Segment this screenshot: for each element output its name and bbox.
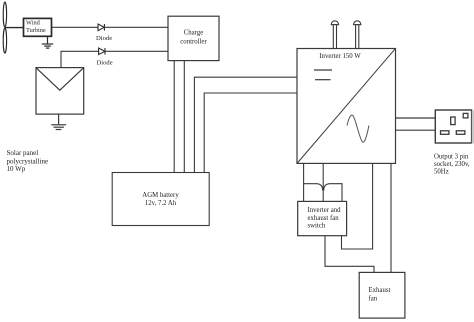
wire wind turbine to diode D1 <box>52 26 98 28</box>
inverter DC symbol <box>314 70 332 80</box>
ground (wind turbine) <box>42 36 53 48</box>
inverter U2 <box>297 49 396 164</box>
svg-text:exhaust fan: exhaust fan <box>308 215 340 222</box>
svg-text:fan: fan <box>369 296 378 303</box>
wire inverter to socket (live) <box>396 117 436 119</box>
switch button left <box>304 184 323 191</box>
svg-text:AGM battery: AGM battery <box>142 192 179 199</box>
svg-text:Charge: Charge <box>184 30 204 37</box>
switch box S1 <box>298 201 347 235</box>
wire inverter to exhaust fan <box>390 163 392 272</box>
svg-text:Exhaust: Exhaust <box>369 287 391 294</box>
svg-text:Diode: Diode <box>97 59 113 66</box>
svg-text:Inverter and: Inverter and <box>308 207 342 214</box>
wind turbine blades <box>3 2 6 53</box>
svg-text:Inverter 150 W: Inverter 150 W <box>319 53 361 60</box>
wire switch to exhaust fan <box>325 236 374 273</box>
ground (solar panel) <box>51 114 66 129</box>
svg-text:socket, 230v,: socket, 230v, <box>434 161 470 168</box>
wire solar panel to diode D2 <box>61 51 99 67</box>
svg-text:controller: controller <box>180 39 207 46</box>
diode D2 label <box>97 59 113 66</box>
svg-text:10 Wp: 10 Wp <box>7 165 26 173</box>
charge controller U1 <box>168 16 219 60</box>
diode D1 <box>98 24 104 31</box>
wire diode D2 to charge controller <box>105 50 168 52</box>
svg-text:50Hz: 50Hz <box>434 169 449 176</box>
svg-text:Diode: Diode <box>96 35 112 42</box>
output socket <box>435 110 471 143</box>
inverter diagonal <box>297 49 395 163</box>
battery B1 <box>112 173 209 226</box>
wire battery to inverter 2 <box>204 93 297 173</box>
wire inverter to socket (neutral) <box>396 129 436 131</box>
diode D2 <box>99 48 105 55</box>
wire inverter down-left-up to switch <box>342 163 373 249</box>
svg-text:Solar panel: Solar panel <box>7 149 39 157</box>
switch button right <box>324 184 342 202</box>
svg-text:Turbine: Turbine <box>26 27 46 34</box>
wire battery to inverter 1 <box>194 77 297 172</box>
inverter AC sine symbol <box>347 115 369 142</box>
wind turbine shaft wire <box>5 27 24 29</box>
socket shadow <box>472 111 474 144</box>
svg-text:Output 3 pin: Output 3 pin <box>434 154 469 161</box>
solar panel PV1 <box>36 68 84 115</box>
output socket label <box>434 154 470 176</box>
wire inverter to switch left <box>303 163 305 201</box>
wire inverter to switch middle <box>322 163 324 201</box>
antenna 2 <box>353 21 360 49</box>
wire controller to battery 2 <box>183 61 185 173</box>
exhaust fan M1 <box>359 272 405 318</box>
wind turbine box <box>24 18 52 36</box>
svg-text:Wind: Wind <box>26 20 41 27</box>
solar panel label <box>7 149 49 173</box>
wire diode D1 to charge controller <box>104 26 168 28</box>
wire controller to battery 1 <box>173 61 175 173</box>
antenna 1 <box>331 21 338 49</box>
diode D1 label <box>96 35 112 42</box>
svg-text:12v, 7.2 Ah: 12v, 7.2 Ah <box>145 200 177 207</box>
svg-text:switch: switch <box>308 223 326 230</box>
